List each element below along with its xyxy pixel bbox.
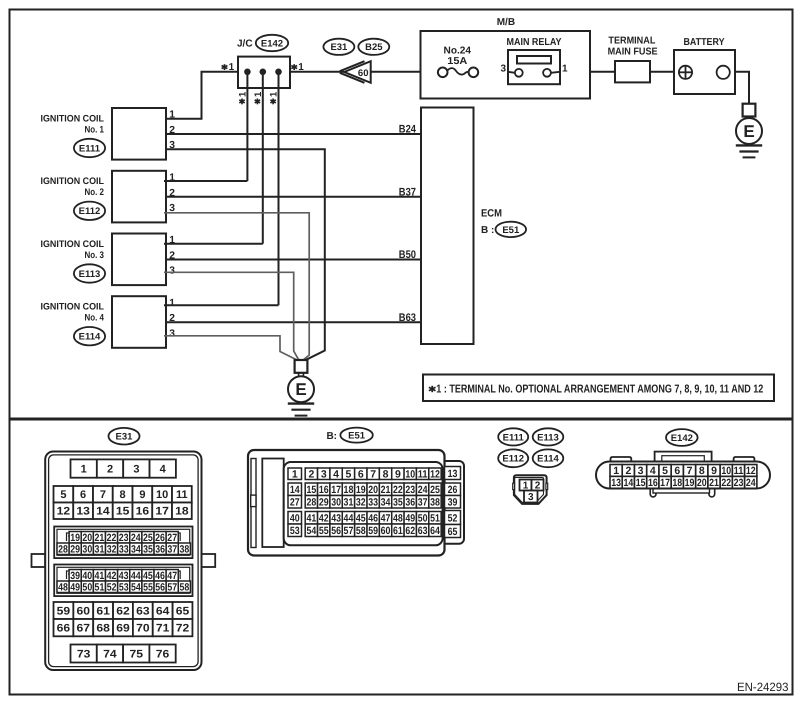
svg-text:71: 71 [156,623,170,635]
svg-text:60: 60 [77,605,91,617]
E142 bottom feet [650,489,656,497]
svg-text:TERMINAL: TERMINAL [608,36,655,47]
svg-text:10: 10 [405,469,415,481]
svg-text:33: 33 [368,497,378,509]
E31 side latch tabs [32,554,46,567]
svg-text:42: 42 [319,513,329,525]
svg-text:19: 19 [356,484,366,496]
svg-text:E114: E114 [537,454,559,465]
svg-text:12: 12 [430,469,440,481]
svg-text:13: 13 [448,468,458,480]
svg-text:63: 63 [136,605,150,617]
E31 pins 12-18 [54,503,74,520]
E31 clip marks [67,571,71,579]
svg-text:49: 49 [405,513,415,525]
svg-text:27: 27 [290,497,300,509]
arrow symbol 60 [344,61,371,83]
svg-text:50: 50 [418,513,428,525]
note *1 right of J/C [293,64,295,70]
svg-text:50: 50 [82,582,92,594]
svg-text:3: 3 [169,266,175,277]
E51 right tab [441,461,464,544]
svg-text:6: 6 [674,465,680,477]
section divider [10,418,793,421]
svg-text:70: 70 [136,623,150,635]
svg-text:11: 11 [418,469,428,481]
E51 pins 28-38 [305,496,317,509]
note *1 rotated on J/C drop 1 [241,99,243,105]
connector labels E111 E112 E113 E114 [498,428,528,445]
wire: coil2 pin2 to ECM B37 [166,196,421,198]
ignition coil No.1 (E111) [112,108,166,160]
E51 body [248,450,445,556]
svg-text:76: 76 [156,648,170,660]
E31 pins 66-72 [54,619,74,636]
wire: coil4 pin2 to ECM B63 [166,321,421,323]
svg-text:48: 48 [393,513,403,525]
svg-text:B37: B37 [399,186,416,198]
svg-text:46: 46 [155,570,165,582]
svg-text:53: 53 [290,525,300,537]
svg-text:9: 9 [711,465,717,477]
svg-text:9: 9 [139,489,145,501]
svg-text:23: 23 [119,532,129,544]
svg-text:E113: E113 [537,432,559,443]
wire: battery internal [674,71,679,73]
E51 pins 54-64 [305,524,317,537]
svg-text:58: 58 [356,525,366,537]
svg-text:55: 55 [319,525,329,537]
wire: M/B internal to fuse [421,71,439,73]
svg-text:No. 4: No. 4 [85,313,105,324]
svg-text:11: 11 [176,489,188,501]
svg-text:26: 26 [155,532,165,544]
svg-text:21: 21 [95,532,105,544]
svg-text:18: 18 [344,484,354,496]
svg-text:3: 3 [321,469,327,481]
svg-text:B63: B63 [399,312,416,324]
svg-text:38: 38 [179,544,189,556]
wire: J/C drop 2 to coil3 pin1 [262,72,264,244]
3-pin cell 3 [524,491,538,503]
svg-text:38: 38 [430,497,440,509]
svg-text:E113: E113 [79,269,101,280]
svg-text:E51: E51 [348,431,366,442]
svg-text:57: 57 [344,525,354,537]
note box *1 terminal arrangement [423,375,774,402]
svg-text:43: 43 [119,570,129,582]
wire: J/C to arrow 60 [290,71,344,73]
svg-text:19: 19 [70,532,80,544]
junction connector J/C E142 [238,57,290,88]
svg-text:73: 73 [77,648,91,660]
svg-text:E31: E31 [116,432,134,443]
svg-text:35: 35 [143,544,153,556]
svg-text:E: E [295,380,306,399]
svg-text:10: 10 [156,489,168,501]
svg-text:23: 23 [734,477,744,489]
svg-text:B :: B : [481,225,494,236]
E51 pin 1 [288,468,302,480]
svg-text:19: 19 [685,477,695,489]
svg-text:IGNITION COIL: IGNITION COIL [41,113,105,124]
svg-text:16: 16 [136,506,150,518]
svg-text:22: 22 [393,484,403,496]
svg-text:No. 1: No. 1 [85,124,105,135]
junction dot 1 [244,69,251,76]
wire: through J/C [238,71,290,73]
svg-text:75: 75 [130,648,144,660]
fuse box M/B [421,31,591,99]
svg-text:32: 32 [356,497,366,509]
connector view E142 [666,429,698,446]
wire: coil2 pin3 to ground [164,213,309,360]
svg-text:62: 62 [405,525,415,537]
note *1 rotated on J/C drop 2 [256,99,258,105]
wire: coil1 pin2 to ECM B24 [166,133,421,135]
E51 pins 2-12 [305,468,317,480]
svg-text:14: 14 [623,477,633,489]
svg-text:74: 74 [103,648,117,660]
wire: coil3 pin1 [164,243,263,245]
E31 pins 28-38 [57,543,69,555]
E51 pin 53 [288,524,302,537]
wire: coil3 pin2 to ECM B50 [166,259,421,261]
svg-text:12: 12 [57,506,71,518]
svg-text:1: 1 [613,465,619,477]
svg-text:14: 14 [96,506,110,518]
svg-text:E111: E111 [79,143,101,154]
note *1 rotated on J/C drop 3 [272,99,274,105]
svg-text:40: 40 [82,570,92,582]
svg-text:40: 40 [290,513,300,525]
svg-text:6: 6 [80,489,86,501]
svg-text:29: 29 [70,544,80,556]
connector label E113 [74,264,105,282]
junction dot 3 [275,69,282,76]
svg-text:15: 15 [306,484,316,496]
svg-text:30: 30 [331,497,341,509]
svg-text:24: 24 [131,532,141,544]
svg-text:31: 31 [344,497,354,509]
svg-text:IGNITION COIL: IGNITION COIL [41,302,105,313]
E142 pins 1-12 [610,465,622,477]
E51 pins 41-51 [305,512,317,525]
svg-text:69: 69 [116,623,130,635]
svg-text:37: 37 [418,497,428,509]
svg-text:30: 30 [82,544,92,556]
E142 pins 13-24 [610,476,622,488]
svg-text:36: 36 [405,497,415,509]
svg-text:No.24: No.24 [444,45,472,56]
E31 pin block 39-58 [54,565,192,597]
svg-text:3: 3 [169,328,175,339]
svg-text:1 : TERMINAL No. OPTIONAL ARRA: 1 : TERMINAL No. OPTIONAL ARRANGEMENT AM… [436,383,763,395]
E142 top tabs [611,457,632,461]
svg-text:45: 45 [356,513,366,525]
svg-text:3: 3 [638,465,644,477]
svg-text:No. 3: No. 3 [85,250,105,261]
svg-text:3: 3 [528,492,534,503]
svg-text:61: 61 [96,605,110,617]
svg-text:25: 25 [430,484,440,496]
svg-text:56: 56 [331,525,341,537]
svg-text:1: 1 [169,110,175,121]
svg-text:54: 54 [306,525,316,537]
svg-text:15: 15 [116,506,130,518]
E31 pin block 19-38 [54,527,192,559]
fuse TERMINAL MAIN FUSE [615,61,650,82]
svg-text:17: 17 [331,484,341,496]
connector labels E31 B25 [323,39,354,55]
svg-text:27: 27 [167,532,177,544]
svg-text:E112: E112 [502,454,524,465]
svg-text:8: 8 [120,489,126,501]
svg-text:BATTERY: BATTERY [684,37,725,48]
E51 inner frame [284,462,443,545]
svg-text:IGNITION COIL: IGNITION COIL [41,176,105,187]
wire: M/B to terminal main fuse [590,71,615,73]
svg-text:E111: E111 [503,432,525,443]
svg-text:2: 2 [625,465,631,477]
svg-text:24: 24 [418,484,428,496]
connector label E112 [74,202,105,220]
svg-text:53: 53 [119,582,129,594]
svg-text:60: 60 [358,68,369,79]
svg-text:1: 1 [562,63,568,74]
svg-text:9: 9 [395,469,401,481]
svg-text:21: 21 [709,477,719,489]
ignition coil No.4 (E114) [112,296,166,348]
svg-text:20: 20 [697,477,707,489]
svg-text:1: 1 [81,464,87,476]
relay MAIN RELAY [508,50,560,84]
battery BATTERY [674,50,735,94]
junction dot 2 [260,69,267,76]
svg-text:59: 59 [57,605,71,617]
svg-text:1: 1 [292,469,298,481]
svg-text:65: 65 [448,526,458,538]
svg-text:28: 28 [58,544,68,556]
E31 pins 39-47 [69,570,81,582]
svg-text:48: 48 [58,582,68,594]
E51 pin 40 [288,512,302,525]
wire: J/C drop 1 to coil2 pin1 [246,72,248,181]
svg-text:6: 6 [358,469,364,481]
svg-text:E142: E142 [261,38,283,49]
svg-text:7: 7 [370,469,376,481]
svg-text:39: 39 [70,570,80,582]
svg-text:49: 49 [70,582,80,594]
svg-text:41: 41 [95,570,105,582]
svg-text:1: 1 [169,298,175,309]
relay coil bar [517,56,551,64]
svg-text:51: 51 [430,513,440,525]
svg-text:5: 5 [60,489,66,501]
svg-text:54: 54 [131,582,141,594]
svg-text:ECM: ECM [481,207,502,219]
svg-text:55: 55 [143,582,153,594]
svg-text:7: 7 [100,489,106,501]
E51 pins 15-25 [305,483,317,496]
svg-text:3: 3 [133,464,139,476]
svg-text:15: 15 [636,477,646,489]
svg-text:16: 16 [319,484,329,496]
svg-text:56: 56 [155,582,165,594]
svg-text:4: 4 [160,464,167,476]
svg-text:18: 18 [175,506,189,518]
svg-text:23: 23 [405,484,415,496]
svg-text:E112: E112 [79,206,101,217]
svg-text:12: 12 [746,465,756,477]
3-pin cells 1 2 [520,480,532,491]
svg-text:25: 25 [143,532,153,544]
battery plus terminal [679,66,692,79]
svg-text:66: 66 [57,623,71,635]
E31 pins 5-11 [54,486,74,503]
svg-text:31: 31 [95,544,105,556]
svg-text:57: 57 [167,582,177,594]
svg-text:17: 17 [155,506,169,518]
svg-text:41: 41 [306,513,316,525]
connector view E31 [109,428,140,445]
wire: coil1 pin3 to ground [166,149,325,360]
svg-text:68: 68 [96,623,110,635]
svg-text:10: 10 [721,465,731,477]
svg-text:62: 62 [116,605,130,617]
wire: J/C drop 3 to coil4 pin1 [278,72,280,305]
svg-text:B:: B: [326,431,337,442]
ignition coil No.2 (E112) [112,171,166,223]
svg-text:5: 5 [662,465,668,477]
svg-text:B50: B50 [399,249,416,261]
svg-text:52: 52 [448,512,458,524]
svg-text:18: 18 [672,477,682,489]
svg-text:11: 11 [734,465,744,477]
connector label E142 [256,35,288,51]
svg-text:22: 22 [721,477,731,489]
wire: terminal main fuse to battery [650,71,674,73]
svg-text:E114: E114 [79,332,101,343]
battery minus terminal [717,66,730,79]
svg-text:35: 35 [393,497,403,509]
wire: arrow 60 to M/B [371,71,421,73]
svg-text:20: 20 [368,484,378,496]
svg-text:44: 44 [131,570,141,582]
svg-text:26: 26 [448,484,458,496]
svg-text:51: 51 [95,582,105,594]
svg-text:4: 4 [650,465,656,477]
wire: coil4 pin1 [164,304,279,306]
svg-text:20: 20 [82,532,92,544]
ground E (battery) [743,104,756,117]
connector label E114 [74,327,105,345]
svg-text:1: 1 [298,62,304,73]
ground E (coils common) [295,360,308,373]
svg-text:33: 33 [119,544,129,556]
E51 pin 27 [288,496,302,509]
svg-text:3: 3 [500,63,506,74]
E31 pins 48-58 [57,581,69,593]
wire: main relay pin 1 to M/B edge [560,71,590,73]
svg-text:47: 47 [381,513,391,525]
svg-text:67: 67 [77,623,91,635]
svg-text:22: 22 [107,532,117,544]
E31 pins 73-76 [71,645,97,663]
svg-text:72: 72 [176,623,190,635]
note *1 left of J/C [224,64,226,70]
svg-text:IGNITION COIL: IGNITION COIL [41,239,105,250]
E51 pin 52 [445,511,461,525]
svg-text:37: 37 [167,544,177,556]
svg-text:61: 61 [393,525,403,537]
wire: battery to ground E [735,72,749,104]
svg-text:42: 42 [107,570,117,582]
svg-text:J/C: J/C [237,39,253,50]
connector label E111 [74,139,105,157]
ECM module [421,108,474,345]
E31 pins 1-4 [71,459,97,477]
svg-text:7: 7 [687,465,693,477]
wire: coil3 pin3 to ground [164,272,299,360]
svg-text:E: E [743,122,754,141]
svg-text:58: 58 [179,582,189,594]
E51 pin 39 [445,496,461,509]
svg-text:5: 5 [346,469,352,481]
svg-text:1: 1 [229,62,235,73]
svg-text:2: 2 [308,469,314,481]
connector view E111/E112/E113/E114 (3-pin) [514,475,547,504]
svg-text:34: 34 [381,497,391,509]
svg-text:34: 34 [131,544,141,556]
svg-text:28: 28 [306,497,316,509]
svg-text:64: 64 [156,605,170,617]
svg-text:MAIN RELAY: MAIN RELAY [507,37,562,48]
E142 body [596,462,770,489]
ignition coil No.3 (E113) [112,234,166,286]
relay contact pins [508,72,515,73]
E31 clip marks [67,533,71,541]
svg-text:60: 60 [381,525,391,537]
svg-text:21: 21 [381,484,391,496]
svg-text:24: 24 [746,477,756,489]
E31 shell [45,452,201,671]
E51 pin 26 [445,483,461,496]
svg-text:M/B: M/B [497,17,515,28]
svg-text:E51: E51 [502,225,520,236]
svg-text:17: 17 [660,477,670,489]
svg-text:B25: B25 [365,42,383,53]
svg-text:13: 13 [76,506,90,518]
svg-text:39: 39 [448,497,458,509]
svg-text:52: 52 [107,582,117,594]
svg-text:59: 59 [368,525,378,537]
svg-text:No. 2: No. 2 [85,187,105,198]
svg-text:13: 13 [611,477,621,489]
svg-text:B24: B24 [399,124,417,136]
svg-text:63: 63 [418,525,428,537]
E31 pins 19-27 [69,532,81,544]
svg-text:E31: E31 [330,42,348,53]
svg-text:29: 29 [319,497,329,509]
wire: fuse to main relay pin 3 [478,71,508,73]
svg-text:44: 44 [344,513,354,525]
fuse No.24 15A [447,68,469,74]
svg-text:EN-24293: EN-24293 [737,680,789,694]
svg-text:65: 65 [176,605,190,617]
E51 pin 14 [288,483,302,496]
svg-text:47: 47 [167,570,177,582]
